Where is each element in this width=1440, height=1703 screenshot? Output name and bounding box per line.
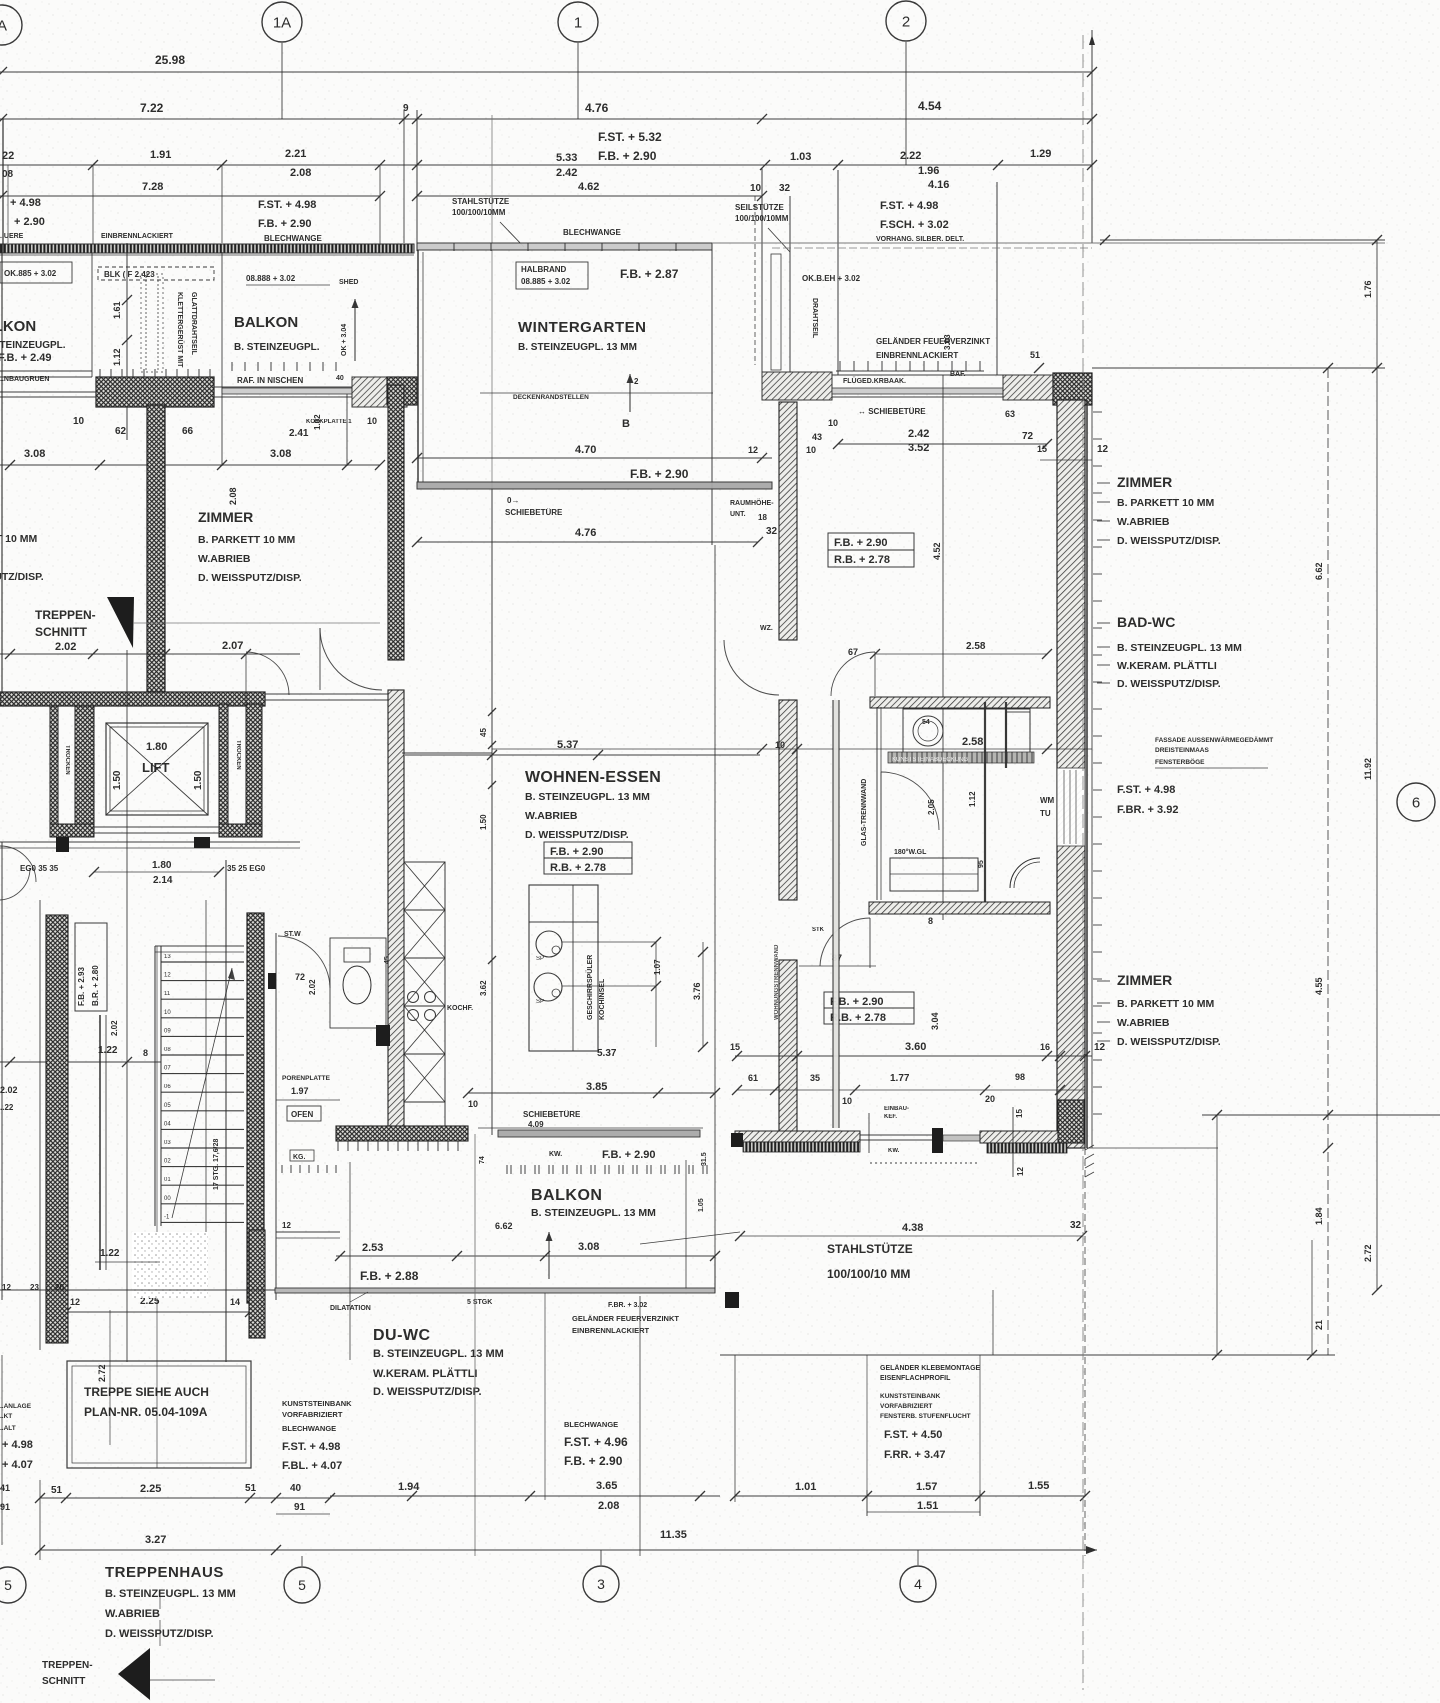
svg-text:GLATTDRAHTSEIL: GLATTDRAHTSEIL: [190, 292, 197, 356]
svg-text:EG0 35 35: EG0 35 35: [20, 864, 59, 873]
svg-text:EINBRENNLACKIERT: EINBRENNLACKIERT: [876, 351, 958, 360]
svg-text:12: 12: [164, 973, 171, 979]
svg-text:1.22: 1.22: [98, 1045, 118, 1056]
svg-text:3.08: 3.08: [270, 448, 291, 460]
svg-text:10: 10: [73, 416, 85, 427]
svg-text:45: 45: [479, 728, 488, 737]
svg-text:98: 98: [1015, 1072, 1025, 1082]
svg-text:2.72: 2.72: [97, 1364, 107, 1382]
svg-text:F.B. + 2.90: F.B. + 2.90: [258, 218, 312, 230]
svg-text:12: 12: [70, 1297, 80, 1307]
svg-text:12: 12: [1097, 444, 1109, 455]
svg-text:ZIMMER: ZIMMER: [1117, 474, 1172, 490]
svg-text:1.80: 1.80: [152, 860, 172, 871]
svg-text:2: 2: [634, 377, 639, 386]
svg-text:WZ.: WZ.: [760, 625, 773, 632]
svg-text:20: 20: [55, 1283, 64, 1292]
svg-text:1.29: 1.29: [1030, 148, 1051, 160]
svg-text:91: 91: [0, 1502, 10, 1512]
svg-text:SCHNITT: SCHNITT: [42, 1676, 85, 1687]
svg-text:SCHIEBETÜRE: SCHIEBETÜRE: [523, 1110, 581, 1119]
svg-text:1.50: 1.50: [479, 814, 488, 830]
svg-text:100/100/10MM: 100/100/10MM: [452, 208, 506, 217]
svg-text:A: A: [0, 17, 7, 34]
svg-text:STK: STK: [812, 927, 825, 933]
svg-text:TROCKEN: TROCKEN: [64, 745, 70, 775]
svg-text:08.888 + 3.02: 08.888 + 3.02: [246, 274, 296, 283]
svg-text:DRAHTSEIL: DRAHTSEIL: [811, 298, 818, 339]
svg-text:DECKENRANDSTELLEN: DECKENRANDSTELLEN: [513, 394, 589, 401]
svg-text:05: 05: [164, 1103, 171, 1109]
svg-text:W.KERAM. PLÄTTLI: W.KERAM. PLÄTTLI: [1117, 659, 1217, 672]
svg-text:08.885 + 3.02: 08.885 + 3.02: [521, 277, 571, 286]
svg-text:BAD-WC: BAD-WC: [1117, 614, 1175, 630]
svg-text:BLECHWANGE: BLECHWANGE: [563, 228, 621, 237]
svg-text:3.08: 3.08: [24, 448, 45, 460]
svg-text:17 STG. 17,6/28: 17 STG. 17,6/28: [213, 1139, 220, 1190]
svg-text:D. WEISSPUTZ/DISP.: D. WEISSPUTZ/DISP.: [1117, 535, 1221, 547]
svg-text:2.14: 2.14: [153, 875, 173, 886]
svg-text:62: 62: [115, 426, 127, 437]
svg-text:1.84: 1.84: [1314, 1207, 1324, 1225]
svg-text:DREISTEINMAAS: DREISTEINMAAS: [1155, 747, 1209, 754]
svg-text:180°W.GL: 180°W.GL: [894, 848, 927, 856]
svg-text:5: 5: [4, 1577, 12, 1593]
svg-text:3.03: 3.03: [943, 334, 952, 350]
svg-text:SP: SP: [536, 999, 544, 1005]
svg-text:40: 40: [336, 375, 344, 382]
svg-text:2.58: 2.58: [962, 736, 983, 748]
svg-text:F.RR. + 3.47: F.RR. + 3.47: [884, 1449, 945, 1461]
svg-text:DILATATION: DILATATION: [330, 1305, 371, 1312]
svg-text:08: 08: [164, 1047, 171, 1053]
svg-text:6.62: 6.62: [1314, 562, 1324, 580]
svg-text:3: 3: [597, 1576, 605, 1592]
svg-text:15: 15: [1015, 1109, 1024, 1118]
svg-text:SCHIEBETÜRE: SCHIEBETÜRE: [505, 508, 563, 517]
svg-text:F.ST. + 4.50: F.ST. + 4.50: [884, 1429, 942, 1441]
svg-text:F.BR. + 3.92: F.BR. + 3.92: [1117, 804, 1178, 816]
svg-text:12: 12: [748, 445, 758, 455]
svg-text:W.ABRIEB: W.ABRIEB: [198, 553, 251, 565]
svg-text:D. WEISSPUTZ/DISP.: D. WEISSPUTZ/DISP.: [0, 571, 44, 583]
svg-text:1.61: 1.61: [112, 301, 122, 319]
svg-text:2.05: 2.05: [927, 799, 936, 815]
svg-text:KUNSTSTEINBANK: KUNSTSTEINBANK: [880, 1393, 941, 1400]
svg-text:3.08: 3.08: [578, 1241, 599, 1253]
svg-text:22: 22: [2, 150, 14, 162]
svg-text:35 25 EG0: 35 25 EG0: [227, 864, 266, 873]
svg-text:61: 61: [748, 1073, 758, 1083]
svg-text:95: 95: [978, 860, 985, 868]
svg-text:6: 6: [1412, 794, 1420, 811]
svg-text:KW.: KW.: [549, 1151, 562, 1158]
svg-text:15: 15: [730, 1042, 740, 1052]
svg-text:3.04: 3.04: [930, 1012, 940, 1030]
svg-text:F.ST. + 4.96: F.ST. + 4.96: [564, 1435, 628, 1449]
svg-text:B. STEINZEUGPL.: B. STEINZEUGPL.: [234, 342, 320, 353]
svg-text:TU: TU: [1040, 809, 1051, 818]
svg-text:SHED: SHED: [339, 279, 358, 286]
svg-text:74: 74: [479, 1156, 486, 1164]
svg-text:B.R. + 2.80: B.R. + 2.80: [91, 965, 100, 1006]
svg-text:VORFABRIZIERT: VORFABRIZIERT: [880, 1403, 932, 1410]
svg-text:09: 09: [164, 1028, 171, 1034]
svg-text:GELÄNDER FEUERVERZINKT: GELÄNDER FEUERVERZINKT: [876, 337, 990, 346]
svg-text:4.16: 4.16: [928, 179, 949, 191]
svg-text:32: 32: [1070, 1220, 1082, 1231]
svg-text:WOHNUNGSTRENNWAND: WOHNUNGSTRENNWAND: [774, 944, 780, 1020]
svg-text:4.52: 4.52: [932, 542, 942, 560]
svg-text:F.ST. + 4.98: F.ST. + 4.98: [880, 200, 938, 212]
svg-text:LIFT: LIFT: [142, 760, 169, 775]
svg-text:1.51: 1.51: [917, 1500, 938, 1512]
svg-text:FLÜGED.KRBAAK.: FLÜGED.KRBAAK.: [843, 376, 906, 385]
svg-text:F.ST. + 4.98: F.ST. + 4.98: [1117, 784, 1175, 796]
svg-text:KUNSTSTEINABDECKUNG: KUNSTSTEINABDECKUNG: [892, 757, 968, 763]
svg-text:F.B. + 2.87: F.B. + 2.87: [620, 267, 679, 281]
svg-text:5.37: 5.37: [597, 1048, 617, 1059]
svg-text:91: 91: [294, 1502, 306, 1513]
svg-text:20: 20: [985, 1094, 995, 1104]
svg-text:10: 10: [164, 1010, 171, 1016]
svg-text:1.01: 1.01: [795, 1481, 816, 1493]
svg-text:BALKON: BALKON: [234, 314, 298, 331]
svg-text:63: 63: [1005, 409, 1015, 419]
svg-text:OFEN: OFEN: [291, 1110, 313, 1119]
svg-text:18: 18: [758, 513, 767, 522]
svg-text:B: B: [622, 418, 630, 430]
svg-text:23: 23: [30, 1283, 39, 1292]
svg-text:3.27: 3.27: [145, 1534, 166, 1546]
svg-text:F.B. + 2.90: F.B. + 2.90: [550, 846, 604, 858]
svg-text:10: 10: [828, 418, 838, 428]
svg-text:32: 32: [766, 526, 778, 537]
svg-text:10: 10: [367, 416, 377, 426]
svg-text:2.42: 2.42: [556, 167, 577, 179]
svg-text:B. STEINZEUGPL. 13 MM: B. STEINZEUGPL. 13 MM: [531, 1207, 656, 1219]
svg-text:DU-WC: DU-WC: [373, 1327, 431, 1344]
svg-text:F.B. + 2.49: F.B. + 2.49: [0, 352, 52, 364]
svg-text:F.BR. + 3.02: F.BR. + 3.02: [608, 1302, 647, 1309]
svg-text:EINBAU-: EINBAU-: [884, 1106, 909, 1112]
svg-text:BLECHWANGE: BLECHWANGE: [564, 1420, 618, 1429]
svg-text:FENSTERBÖGE: FENSTERBÖGE: [1155, 757, 1205, 766]
svg-text:W.ABRIEB: W.ABRIEB: [1117, 1017, 1170, 1029]
svg-text:-1: -1: [164, 1214, 170, 1220]
svg-text:4.38: 4.38: [902, 1222, 923, 1234]
svg-text:13: 13: [164, 954, 171, 960]
svg-text:D. WEISSPUTZ/DISP.: D. WEISSPUTZ/DISP.: [525, 829, 629, 841]
svg-text:4.76: 4.76: [575, 527, 596, 539]
svg-text:UNT.: UNT.: [730, 511, 746, 518]
svg-text:F.SCH. + 3.02: F.SCH. + 3.02: [880, 219, 949, 231]
svg-text:4.76: 4.76: [585, 101, 609, 115]
svg-text:R.B. + 2.78: R.B. + 2.78: [834, 554, 890, 566]
svg-text:01: 01: [164, 1177, 171, 1183]
svg-text:GELÄNDER FEUERVERZINKT: GELÄNDER FEUERVERZINKT: [572, 1314, 679, 1323]
svg-text:F.B. + 2.90: F.B. + 2.90: [630, 467, 689, 481]
svg-text:STAHLSTÜTZE: STAHLSTÜTZE: [827, 1241, 913, 1256]
svg-text:54: 54: [922, 719, 930, 726]
svg-text:+ 4.98: + 4.98: [2, 1439, 33, 1451]
svg-text:ZIMMER: ZIMMER: [198, 509, 253, 525]
svg-text:KEF.: KEF.: [884, 1114, 897, 1120]
svg-text:+ 4.07: + 4.07: [2, 1459, 33, 1471]
svg-text:WINTERGARTEN: WINTERGARTEN: [518, 319, 647, 336]
svg-text:10: 10: [806, 445, 816, 455]
svg-text:51: 51: [51, 1485, 63, 1496]
svg-text:W.ABRIEB: W.ABRIEB: [525, 810, 578, 822]
svg-text:R.B. + 2.78: R.B. + 2.78: [550, 862, 606, 874]
svg-text:00: 00: [164, 1196, 171, 1202]
svg-text:B. STEINZEUGPL. 13 MM: B. STEINZEUGPL. 13 MM: [1117, 642, 1242, 654]
svg-text:EINBRENNLACKIERT: EINBRENNLACKIERT: [572, 1326, 650, 1335]
svg-text:06: 06: [164, 1084, 171, 1090]
svg-text:B. STEINZEUGPL. 13 MM: B. STEINZEUGPL. 13 MM: [518, 342, 637, 353]
svg-text:F.ST. + 4.98: F.ST. + 4.98: [282, 1441, 340, 1453]
svg-text:F.BL. + 4.07: F.BL. + 4.07: [282, 1460, 342, 1472]
svg-text:B. STEINZEUGPL. 13 MM: B. STEINZEUGPL. 13 MM: [525, 791, 650, 803]
svg-text:14: 14: [230, 1297, 240, 1307]
svg-text:HALBRAND: HALBRAND: [521, 265, 567, 274]
svg-text:43: 43: [812, 432, 822, 442]
svg-text:7.22: 7.22: [140, 101, 164, 115]
svg-text:D. WEISSPUTZ/DISP.: D. WEISSPUTZ/DISP.: [105, 1628, 214, 1640]
svg-text:7.28: 7.28: [142, 181, 163, 193]
svg-text:1.05: 1.05: [698, 1198, 705, 1212]
svg-text:8: 8: [143, 1048, 148, 1058]
svg-text:BLECHWANGE: BLECHWANGE: [264, 234, 322, 243]
svg-text:72: 72: [1022, 431, 1034, 442]
svg-text:F.B. + 2.90: F.B. + 2.90: [564, 1454, 623, 1468]
svg-text:F.B. + 2.90: F.B. + 2.90: [602, 1149, 656, 1161]
svg-text:1.12: 1.12: [968, 791, 977, 807]
svg-text:GESCHIRRSPÜLER: GESCHIRRSPÜLER: [585, 955, 594, 1020]
svg-text:10: 10: [842, 1096, 852, 1106]
svg-text:100/100/10 MM: 100/100/10 MM: [827, 1267, 910, 1281]
svg-text:1.03: 1.03: [790, 151, 811, 163]
svg-text:W.KERAM. PLÄTTLI: W.KERAM. PLÄTTLI: [373, 1367, 478, 1380]
svg-text:RAF. IN NISCHEN: RAF. IN NISCHEN: [237, 376, 303, 385]
svg-text:1A: 1A: [273, 14, 291, 31]
svg-text:KG.: KG.: [293, 1154, 306, 1161]
svg-text:4.54: 4.54: [918, 99, 942, 113]
svg-text:15: 15: [1037, 444, 1047, 454]
svg-text:FASSADE AUSSENWÄRMEGEDÄMMT: FASSADE AUSSENWÄRMEGEDÄMMT: [1155, 736, 1273, 744]
svg-text:2.41: 2.41: [289, 428, 309, 439]
svg-text:2.02: 2.02: [0, 1085, 18, 1095]
svg-text:4.55: 4.55: [1314, 977, 1324, 995]
svg-text:GLAS-TRENNWAND: GLAS-TRENNWAND: [861, 779, 868, 846]
svg-text:ZIMMER: ZIMMER: [1117, 972, 1172, 988]
svg-text:2.08: 2.08: [228, 487, 238, 505]
svg-text:D. WEISSPUTZ/DISP.: D. WEISSPUTZ/DISP.: [1117, 678, 1221, 690]
svg-text:12: 12: [1016, 1167, 1025, 1176]
svg-text:3.76: 3.76: [692, 982, 702, 1000]
svg-text:2.08: 2.08: [290, 167, 311, 179]
svg-text:3.62: 3.62: [479, 980, 488, 996]
svg-text:10: 10: [750, 183, 762, 194]
svg-text:F.B. + 2.88: F.B. + 2.88: [360, 1269, 419, 1283]
svg-text:B. PARKETT 10 MM: B. PARKETT 10 MM: [1117, 998, 1214, 1010]
svg-text:↔ SCHIEBETÜRE: ↔ SCHIEBETÜRE: [858, 407, 926, 416]
svg-text:1.76: 1.76: [1363, 280, 1373, 298]
svg-text:67: 67: [848, 647, 858, 657]
svg-text:VORFABRIZIERT: VORFABRIZIERT: [282, 1410, 343, 1419]
svg-text:11: 11: [164, 991, 171, 997]
svg-text:5 STGK: 5 STGK: [467, 1299, 492, 1306]
svg-text:W.ABRIEB: W.ABRIEB: [1117, 516, 1170, 528]
svg-text:BALKON: BALKON: [531, 1187, 602, 1204]
svg-text:TREPPEN-: TREPPEN-: [35, 608, 96, 622]
svg-text:1: 1: [574, 14, 582, 31]
svg-text:GELÄNDER KLEBEMONTAGE: GELÄNDER KLEBEMONTAGE: [880, 1364, 981, 1372]
svg-text:51: 51: [245, 1483, 257, 1494]
svg-text:B. PARKETT 10 MM: B. PARKETT 10 MM: [0, 533, 37, 545]
svg-text:SEILSTÜTZE: SEILSTÜTZE: [735, 203, 785, 212]
svg-text:1.77: 1.77: [890, 1073, 910, 1084]
svg-text:OK.B.EH + 3.02: OK.B.EH + 3.02: [802, 274, 861, 283]
svg-text:OK + 3.04: OK + 3.04: [341, 324, 348, 356]
svg-text:12: 12: [1094, 1042, 1106, 1053]
svg-text:D. WEISSPUTZ/DISP.: D. WEISSPUTZ/DISP.: [1117, 1036, 1221, 1048]
svg-text:12: 12: [282, 1221, 291, 1230]
svg-text:KOCHF.: KOCHF.: [447, 1005, 473, 1012]
svg-text:2.07: 2.07: [222, 640, 243, 652]
svg-text:1.12: 1.12: [112, 348, 122, 366]
svg-text:1.50: 1.50: [193, 770, 204, 790]
svg-text:3.60: 3.60: [905, 1041, 926, 1053]
svg-text:4.70: 4.70: [575, 444, 596, 456]
svg-text:EINBRENNLACKIERT: EINBRENNLACKIERT: [101, 233, 174, 240]
svg-text:3.65: 3.65: [596, 1480, 617, 1492]
svg-text:D. WEISSPUTZ/DISP.: D. WEISSPUTZ/DISP.: [373, 1386, 482, 1398]
svg-text:F.B. + 2.93: F.B. + 2.93: [77, 967, 86, 1006]
svg-text:10: 10: [468, 1099, 478, 1109]
svg-text:5: 5: [298, 1577, 306, 1593]
svg-text:RAUMHÖHE-: RAUMHÖHE-: [730, 498, 774, 507]
svg-text:11.35: 11.35: [660, 1529, 687, 1541]
svg-text:2.22: 2.22: [900, 150, 921, 162]
svg-text:32: 32: [779, 183, 791, 194]
svg-text:B. STEINZEUGPL.: B. STEINZEUGPL.: [0, 340, 66, 351]
svg-text:SCHNITT: SCHNITT: [35, 625, 88, 639]
svg-text:B. STEINZEUGPL. 13 MM: B. STEINZEUGPL. 13 MM: [105, 1588, 236, 1600]
svg-text:1.22: 1.22: [100, 1248, 120, 1259]
svg-text:..ANLAGE: ..ANLAGE: [0, 1403, 32, 1410]
svg-text:BLK ( F 2.423: BLK ( F 2.423: [104, 270, 155, 279]
svg-text:+ 4.98: + 4.98: [10, 197, 41, 209]
svg-text:1.02: 1.02: [313, 414, 322, 430]
svg-text:STAHLSTÜTZE: STAHLSTÜTZE: [452, 197, 510, 206]
svg-text:F.ST. + 4.98: F.ST. + 4.98: [258, 199, 316, 211]
svg-text:BAF.: BAF.: [950, 371, 966, 378]
svg-text:PORENPLATTE: PORENPLATTE: [282, 1075, 331, 1082]
svg-text:0→: 0→: [507, 496, 519, 505]
svg-text:1.91: 1.91: [150, 149, 171, 161]
svg-text:11.92: 11.92: [1363, 758, 1373, 780]
svg-text:..NBAUGRUEN: ..NBAUGRUEN: [0, 376, 49, 383]
svg-text:D. WEISSPUTZ/DISP.: D. WEISSPUTZ/DISP.: [198, 572, 302, 584]
svg-text:41: 41: [0, 1483, 10, 1493]
svg-text:2.72: 2.72: [1363, 1244, 1373, 1262]
svg-text:2.02: 2.02: [110, 1020, 119, 1036]
svg-text:25.98: 25.98: [155, 53, 185, 67]
svg-text:PLAN-NR. 05.04-109A: PLAN-NR. 05.04-109A: [84, 1405, 208, 1419]
svg-text:2.02: 2.02: [55, 641, 76, 653]
svg-text:F.ST. + 5.32: F.ST. + 5.32: [598, 130, 662, 144]
svg-text:B. STEINZEUGPL. 13 MM: B. STEINZEUGPL. 13 MM: [373, 1348, 504, 1360]
svg-text:1.07: 1.07: [653, 959, 662, 975]
svg-text:EISENFLACHPROFIL: EISENFLACHPROFIL: [880, 1375, 951, 1382]
svg-text:72: 72: [295, 972, 305, 982]
svg-text:F.B. + 2.90: F.B. + 2.90: [834, 537, 888, 549]
svg-text:2.08: 2.08: [598, 1500, 619, 1512]
svg-text:2.21: 2.21: [285, 148, 306, 160]
svg-text:4: 4: [914, 1576, 922, 1592]
svg-text:TROCKEN: TROCKEN: [235, 740, 241, 770]
svg-text:16: 16: [1040, 1042, 1050, 1052]
svg-text:66: 66: [182, 426, 194, 437]
svg-text:5.33: 5.33: [556, 152, 577, 164]
svg-text:W.ABRIEB: W.ABRIEB: [105, 1608, 160, 1620]
svg-text:6.62: 6.62: [495, 1221, 513, 1231]
svg-text:2.53: 2.53: [362, 1242, 383, 1254]
svg-text:TREPPENHAUS: TREPPENHAUS: [105, 1564, 224, 1581]
svg-text:KLETTERGERÜST MIT: KLETTERGERÜST MIT: [176, 292, 185, 368]
svg-text:ST.W: ST.W: [284, 931, 301, 938]
svg-text:10: 10: [775, 740, 785, 750]
svg-text:SP: SP: [536, 956, 544, 962]
svg-text:OK.885 + 3.02: OK.885 + 3.02: [4, 269, 57, 278]
svg-text:VORHANG. SILBER. DELT.: VORHANG. SILBER. DELT.: [876, 236, 964, 243]
svg-text:B. PARKETT 10 MM: B. PARKETT 10 MM: [1117, 497, 1214, 509]
svg-text:BALKON: BALKON: [0, 318, 36, 335]
svg-text:03: 03: [164, 1140, 171, 1146]
svg-text:WOHNEN-ESSEN: WOHNEN-ESSEN: [525, 769, 661, 786]
svg-text:1.80: 1.80: [146, 741, 167, 753]
svg-text:12: 12: [2, 1283, 11, 1292]
svg-text:2.42: 2.42: [908, 428, 929, 440]
svg-text:51: 51: [1030, 350, 1040, 360]
svg-text:40: 40: [290, 1483, 302, 1494]
svg-text:3.85: 3.85: [586, 1081, 607, 1093]
svg-text:B. PARKETT 10 MM: B. PARKETT 10 MM: [198, 534, 295, 546]
svg-text:31.5: 31.5: [701, 1152, 708, 1166]
svg-text:F.B. + 2.90: F.B. + 2.90: [598, 149, 657, 163]
svg-text:4.62: 4.62: [578, 181, 599, 193]
svg-text:21: 21: [1314, 1320, 1324, 1330]
svg-text:TREPPE SIEHE AUCH: TREPPE SIEHE AUCH: [84, 1385, 209, 1399]
svg-text:2.25: 2.25: [140, 1483, 161, 1495]
svg-text:1.50: 1.50: [112, 770, 123, 790]
svg-text:1.96: 1.96: [918, 165, 939, 177]
svg-text:04: 04: [164, 1121, 171, 1127]
svg-text:8: 8: [928, 916, 933, 926]
svg-text:BLECHWANGE: BLECHWANGE: [282, 1424, 336, 1433]
svg-text:1.97: 1.97: [291, 1086, 309, 1096]
svg-text:FENSTERB. STUFENFLUCHT: FENSTERB. STUFENFLUCHT: [880, 1413, 971, 1420]
svg-text:KW.: KW.: [888, 1148, 900, 1154]
svg-text:WM: WM: [1040, 796, 1055, 805]
svg-text:35: 35: [810, 1073, 820, 1083]
svg-text:2: 2: [902, 13, 910, 30]
svg-text:2.02: 2.02: [308, 979, 317, 995]
svg-text:2.58: 2.58: [966, 641, 986, 652]
svg-text:02: 02: [164, 1159, 171, 1165]
svg-text:07: 07: [164, 1066, 171, 1072]
